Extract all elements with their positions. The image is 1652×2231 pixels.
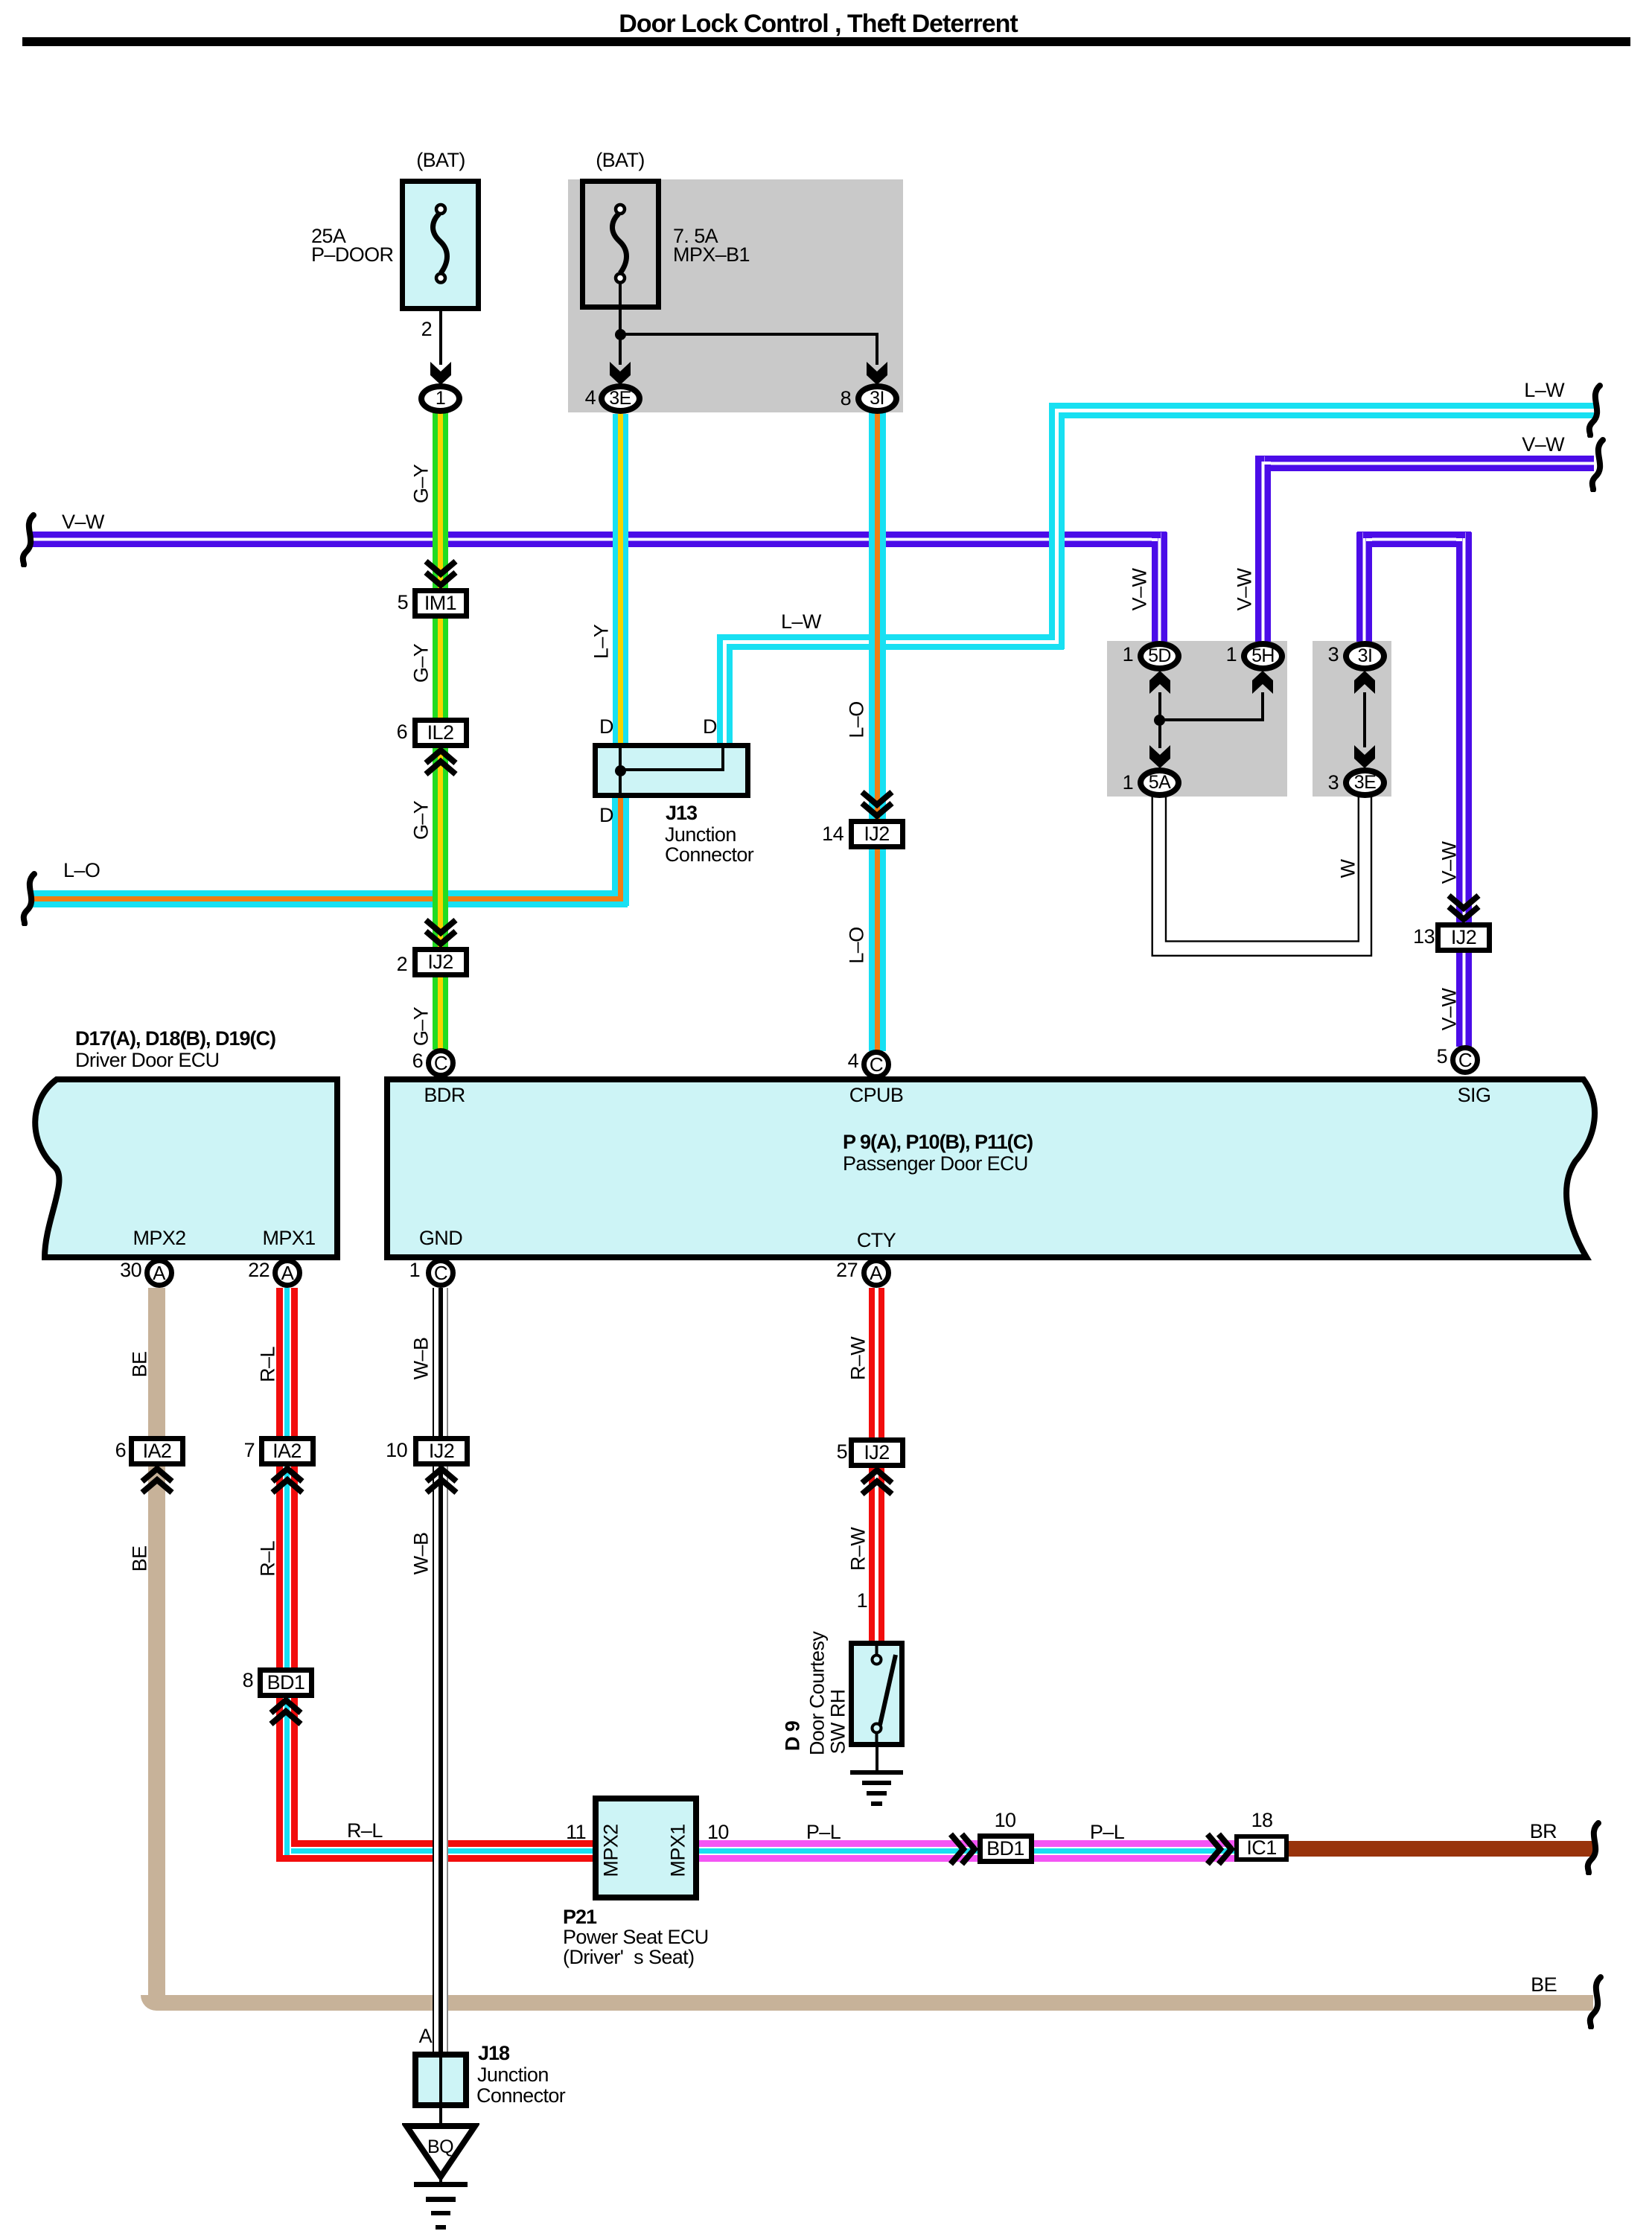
label pin 10 P21 — [707, 1822, 729, 1842]
wire J13 internal horizontal — [620, 768, 723, 771]
label V-W 5D — [1130, 569, 1150, 611]
arrow into connector 1 — [430, 361, 452, 386]
label drivers seat — [563, 1947, 694, 1967]
break symbol L-O left break — [19, 871, 40, 926]
label W label — [1339, 860, 1359, 878]
wire fuse MPX-B1 lead — [619, 284, 622, 365]
label GND — [419, 1228, 462, 1248]
wire W (white, outlined) 5A to 3E — [1139, 789, 1385, 968]
arrow into IM1 — [423, 558, 459, 591]
wire L-O left horizontal — [30, 890, 628, 907]
label G-Y 1 — [412, 465, 432, 503]
connector 3E pin3 3E — [1343, 767, 1387, 798]
fuse symbol 25A P-DOOR — [427, 202, 454, 285]
label pin 27 — [836, 1260, 858, 1280]
wire L-W vertical right — [1049, 403, 1065, 649]
label pin 3 3E — [1328, 773, 1339, 793]
connector 5H pin1 5H — [1241, 641, 1285, 671]
arrow below IA2 pin6 — [139, 1463, 175, 1496]
wire V-W 3I-to-IJ2 horizontal — [1357, 532, 1471, 547]
wire corner patch — [1264, 462, 1271, 465]
junction dot MPX-B1 — [615, 329, 626, 340]
wire J18 inner vertical — [439, 2055, 442, 2105]
power seat ECU P21 box — [593, 1796, 699, 1900]
wire corner patch — [727, 640, 733, 644]
connector 1 fuse output — [418, 383, 462, 414]
junction connector J13 box — [593, 743, 750, 798]
label power seat ecu — [563, 1927, 709, 1947]
wire fuse P-DOOR lead — [439, 284, 442, 365]
wire J13 inner vertical — [619, 748, 622, 793]
label pin 30 — [120, 1260, 141, 1280]
label J13 connector — [665, 845, 753, 865]
5D-5H junction dot — [1154, 715, 1165, 726]
label BR — [1530, 1822, 1557, 1842]
wire R-W vertical — [869, 1288, 884, 1641]
label (BAT) fuse1 — [416, 150, 465, 170]
label W-B 2 — [412, 1533, 432, 1575]
connector 3I MPX-B1 output 8 — [855, 383, 899, 414]
label D 9 — [783, 1721, 803, 1751]
wire D9 ground lead — [876, 1747, 878, 1771]
label W-B 1 — [412, 1338, 432, 1380]
connector 3E MPX-B1 output 4 — [599, 383, 642, 414]
ground J18 ground BQ — [414, 2182, 468, 2187]
label title — [619, 11, 1017, 36]
label L-O mid1 — [847, 701, 867, 738]
label driver door ecu — [75, 1050, 220, 1070]
label L-W right — [1524, 380, 1564, 400]
label SW RH — [829, 1690, 849, 1755]
label D bottom — [599, 805, 613, 826]
title underline — [22, 37, 1630, 46]
break symbol V-W right break — [1588, 437, 1609, 492]
gray harness block 3I/3E — [1313, 641, 1391, 797]
label L-W mid — [781, 612, 821, 632]
wire L-O below J13 — [612, 797, 629, 906]
wire corner patch — [618, 901, 623, 907]
label BDR — [424, 1085, 465, 1105]
label pin 7 IA2 — [244, 1440, 255, 1461]
fuse symbol 7.5A MPX-B1 — [607, 202, 634, 285]
label pin 2 IJ2 — [397, 954, 407, 974]
wire BE corner — [141, 1995, 172, 2011]
label pin 3 3I — [1328, 645, 1339, 665]
label pin 18 IC1 — [1251, 1810, 1273, 1831]
label P-L 2 — [1090, 1822, 1124, 1842]
wire J13 internal right vertical — [721, 747, 724, 771]
gray harness block (engine room J/B) — [568, 179, 903, 412]
wire 3I-3E internal vertical — [1363, 692, 1366, 747]
label G-Y 3 — [412, 801, 432, 840]
label pin 1 5A — [1123, 773, 1133, 793]
ground D9 ground — [850, 1770, 903, 1775]
wire corner patch — [612, 896, 618, 901]
arrow below IA2 pin7 — [270, 1463, 305, 1496]
arrow into IC1 pin18 — [1205, 1831, 1237, 1867]
label CTY — [857, 1231, 896, 1251]
label pin 6 IL2 — [397, 722, 407, 742]
label P9 ids — [843, 1132, 1033, 1152]
wire corner patch — [1261, 456, 1264, 462]
wire J13 inner horizontal — [620, 768, 723, 771]
label R-L horiz — [347, 1821, 383, 1841]
label pin 1 5D — [1123, 645, 1133, 665]
wire BE vertical — [148, 1288, 165, 1995]
wire 5D-5H internal horizontal — [1160, 718, 1263, 721]
label pin 8 3I — [841, 389, 851, 409]
break symbol L-W right break — [1585, 383, 1606, 438]
arrow into IJ2 pin14 — [859, 789, 895, 822]
label SIG — [1458, 1085, 1491, 1105]
connector IA2 junction IA2 pin7 — [259, 1436, 316, 1466]
label L-O mid2 — [847, 927, 867, 963]
label 25A — [311, 226, 345, 246]
connector IJ2 junction IJ2 pin10 — [413, 1436, 470, 1466]
label pin 5 IJ2b — [837, 1442, 847, 1462]
label L-Y — [592, 625, 612, 659]
wire L-Y vertical — [613, 414, 628, 744]
wire G-Y vertical — [433, 412, 448, 1050]
Passenger Door ECU P9/P10/P11 box — [372, 0, 1652, 1303]
arrow below IL2 — [423, 744, 459, 777]
fuse 7.5A MPX-B1 box — [580, 179, 661, 310]
pin C GND pin 1 — [426, 1258, 456, 1288]
label 7.5A — [673, 226, 718, 246]
wire V-W IJ2-13 to SIG — [1456, 951, 1472, 1047]
label pin 13 IJ2 — [1413, 927, 1435, 947]
break symbol V-W left break — [19, 512, 39, 567]
pin A MPX2 pin 30 — [144, 1258, 174, 1288]
connector IJ2 junction IJ2 pin2 — [412, 947, 469, 977]
arrow into BD1 pin10 — [948, 1831, 980, 1867]
wire J18 to BQ lead — [439, 2108, 442, 2130]
label G-Y 4 — [412, 1007, 432, 1046]
connector IL2 junction IL2 — [412, 718, 469, 748]
label V-W 13b — [1440, 989, 1460, 1031]
arrow into 5D — [1149, 670, 1171, 695]
arrow into IJ2 pin13 — [1446, 893, 1482, 925]
connector IM1 junction IM1 — [412, 588, 469, 619]
label P21 name — [563, 1907, 596, 1927]
label P-DOOR — [311, 245, 393, 265]
label J18 junction — [477, 2065, 549, 2085]
label D top right — [703, 717, 717, 737]
label MPX1 — [262, 1228, 315, 1248]
connector IJ2 junction IJ2 pin14 — [849, 819, 905, 849]
label V-W 5H — [1235, 569, 1255, 611]
connector 5A pin1 5A — [1138, 767, 1181, 798]
wire V-W from 3I up — [1356, 532, 1372, 642]
label pin 8 BD1 — [243, 1670, 253, 1691]
label pin 1 D9 — [857, 1591, 867, 1611]
label D17 ids — [75, 1029, 275, 1049]
J13 internal dot — [615, 765, 626, 776]
wire 5D stem — [1158, 692, 1161, 748]
Driver Door ECU D17/D18/D19 box — [0, 0, 372, 1303]
wire corner patch — [1059, 409, 1065, 412]
wire V-W to 5H — [1255, 456, 1271, 642]
label J18 name — [478, 2043, 509, 2064]
label BE 2 — [130, 1546, 150, 1572]
pin C BDR pin 6 — [426, 1048, 456, 1078]
wire corner patch — [283, 1855, 291, 1862]
arrow into 3E — [1353, 744, 1376, 769]
fuse 25A P-DOOR box — [400, 179, 481, 311]
pin A MPX1 pin 22 — [272, 1258, 302, 1288]
label A J18 — [419, 2026, 432, 2046]
label pin 4 CPUB — [848, 1051, 858, 1071]
wire L-W into J13 — [717, 635, 733, 744]
label J13 junction — [665, 825, 736, 845]
label pin 5 IM1 — [398, 593, 408, 613]
wire corner patch — [1158, 532, 1161, 538]
label pin 5 SIG — [1437, 1047, 1447, 1067]
wire V-W to IJ2-13 — [1456, 532, 1472, 923]
wire J13 inner right vertical — [721, 748, 724, 771]
arrow into connector 3I — [866, 361, 888, 386]
ground triangle BQ — [402, 2123, 479, 2181]
label P-L 1 — [806, 1822, 841, 1842]
label CPUB — [849, 1085, 904, 1105]
wire R-L vertical — [276, 1288, 298, 1862]
connector IA2 junction IA2 pin6 — [129, 1436, 185, 1466]
connector IC1 junction IC1 pin18 — [1234, 1834, 1289, 1862]
label D top left — [599, 717, 613, 737]
break symbol BR right break — [1584, 1820, 1604, 1875]
label L-O left — [63, 861, 100, 881]
label pin 10 BD1 — [995, 1810, 1016, 1831]
label pin 6 IA2 — [115, 1440, 126, 1461]
label BE right — [1531, 1975, 1557, 1995]
wire J13 internal vertical — [619, 744, 622, 797]
wire L-W right horizontal — [1049, 403, 1594, 418]
label pin 11 P21 — [566, 1822, 586, 1842]
label pin 1 5H — [1226, 645, 1237, 665]
label J13 name — [666, 803, 697, 823]
label pin 6 BDR — [412, 1051, 423, 1071]
connector 3I pin3 3I — [1343, 641, 1387, 671]
wire corner patch — [1462, 532, 1465, 538]
label pin 2 fuse — [421, 319, 432, 339]
wire MPX-B1 branch vertical — [876, 333, 878, 365]
junction connector J18 box — [412, 2052, 469, 2108]
wire corner patch — [1456, 538, 1463, 541]
label pin 1 GND — [409, 1260, 420, 1280]
label V-W right — [1522, 435, 1564, 455]
arrow into IJ2 pin2 — [423, 917, 459, 950]
label MPX2 — [133, 1228, 185, 1248]
label MPX-B1 — [673, 245, 750, 265]
wire BR horizontal — [1289, 1841, 1593, 1857]
wire corner patch — [1366, 538, 1373, 541]
wire P-L horizontal — [699, 1840, 1234, 1862]
connector IJ2 junction IJ2 pin13 — [1435, 922, 1492, 953]
arrow into 3I — [1353, 670, 1376, 695]
wire BQ to ground lead — [439, 2176, 442, 2183]
wire L-O vertical 3I-CPUB — [869, 412, 886, 1051]
wire corner patch — [723, 634, 727, 640]
switch D9 contacts — [849, 1641, 905, 1747]
pin A CTY pin 27 — [861, 1258, 891, 1288]
arrow below IJ2 pin5 — [859, 1464, 895, 1497]
arrow into connector 3E — [609, 361, 631, 386]
connector 5D pin1 5D — [1138, 641, 1181, 671]
label J18 connector — [476, 2086, 565, 2106]
arrow into 5A — [1149, 744, 1171, 769]
wire corner patch — [1363, 532, 1366, 538]
wire L-W middle horizontal — [717, 634, 1064, 650]
wire R-L bottom horizontal — [277, 1840, 593, 1862]
wire V-W to 5D — [1152, 532, 1167, 642]
wire MPX-B1 branch horizontal — [620, 333, 877, 336]
label pin 10 IJ2 — [386, 1440, 407, 1461]
door courtesy switch D9 box — [849, 1641, 905, 1747]
label MPX1 rot — [669, 1824, 689, 1877]
label pin 22 — [248, 1260, 270, 1280]
wire V-W main horizontal — [30, 532, 1167, 547]
break symbol BE right break — [1586, 1974, 1607, 2029]
wire V-W right horizontal — [1255, 456, 1594, 471]
connector BD1 junction BD1 pin8 — [258, 1667, 314, 1698]
pin C SIG pin 5 — [1450, 1045, 1480, 1075]
label R-L 1 — [258, 1347, 278, 1382]
pin C CPUB pin 4 — [861, 1050, 891, 1079]
label R-L 2 — [258, 1541, 278, 1577]
label BE 1 — [130, 1352, 150, 1378]
label V-W 13a — [1440, 842, 1460, 884]
label door courtesy — [808, 1632, 828, 1755]
wire corner patch — [1049, 640, 1055, 644]
arrow below BD1 pin8 — [268, 1694, 304, 1727]
label R-W 1 — [849, 1337, 869, 1380]
connector IJ2 junction IJ2 pin5 — [849, 1437, 905, 1468]
wire corner patch — [1055, 403, 1059, 409]
label pin 4 3E — [585, 388, 596, 408]
label V-W left — [62, 512, 104, 532]
wire corner patch — [1055, 644, 1059, 650]
wire BE bottom horizontal — [164, 1995, 1593, 2011]
label BQ — [427, 2138, 453, 2157]
arrow into 5H — [1251, 670, 1274, 695]
wire corner patch — [291, 1847, 298, 1855]
J13 dot — [615, 765, 626, 776]
wire W-B vertical — [433, 1288, 448, 2052]
wire 5H internal vertical — [1261, 692, 1264, 721]
gray harness block 5D/5H/5A — [1107, 641, 1287, 797]
label (BAT) fuse2 — [596, 150, 645, 170]
arrow below IJ2 pin10 — [424, 1463, 459, 1496]
connector BD1 junction BD1 pin10 — [978, 1833, 1034, 1864]
label R-W 2 — [849, 1528, 869, 1571]
label G-Y 2 — [412, 644, 432, 683]
wire corner patch — [1152, 538, 1158, 541]
label passenger door ecu — [843, 1154, 1028, 1174]
label MPX2 rot — [602, 1824, 622, 1877]
label pin 14 IJ2 — [822, 824, 843, 844]
